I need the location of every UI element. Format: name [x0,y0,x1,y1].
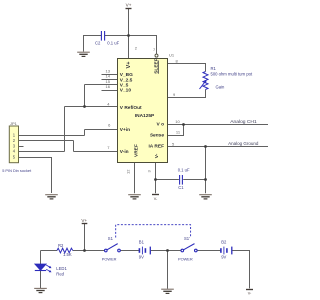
svg-text:POWER: POWER [102,256,117,261]
svg-text:JP1: JP1 [10,121,18,126]
svg-text:V+: V+ [126,61,132,69]
svg-text:V+: V+ [126,3,132,8]
svg-text:V_5: V_5 [120,83,129,89]
svg-text:0.1 uF: 0.1 uF [107,41,119,46]
svg-text:B2: B2 [221,239,227,244]
svg-text:12: 12 [126,169,131,174]
svg-text:U1: U1 [169,53,175,58]
svg-text:Gain: Gain [216,84,226,89]
svg-text:C2: C2 [95,41,101,46]
svg-text:9V: 9V [221,254,226,259]
svg-text:S1': S1' [184,236,190,241]
svg-text:INA125P: INA125P [135,113,155,119]
svg-text:C1: C1 [178,185,184,190]
svg-text:R1: R1 [211,66,217,71]
svg-text:V-: V- [154,153,160,158]
svg-text:Analog CH1: Analog CH1 [230,119,257,125]
svg-text:S1: S1 [108,236,114,241]
svg-text:V Ref/Out: V Ref/Out [120,105,142,111]
svg-text:V+in: V+in [120,127,130,133]
svg-text:V_2.5: V_2.5 [120,77,133,83]
svg-text:V+: V+ [81,218,87,223]
svg-text:V_10: V_10 [120,88,132,94]
svg-text:0.1 uF: 0.1 uF [178,168,190,173]
svg-text:POWER: POWER [178,256,193,261]
svg-text:500 ohm multi turn pot: 500 ohm multi turn pot [211,72,254,77]
svg-text:Red: Red [56,271,64,276]
svg-text:VREF: VREF [133,144,139,157]
svg-text:5 PIN Din socket: 5 PIN Din socket [2,168,32,173]
svg-text:Analog Ground: Analog Ground [228,141,259,146]
svg-text:Sense: Sense [150,132,164,138]
svg-text:9V: 9V [139,254,144,259]
svg-text:R2: R2 [58,243,64,248]
svg-text:1.5K: 1.5K [63,252,72,257]
svg-text:10: 10 [175,119,180,124]
svg-text:IA REF: IA REF [148,144,164,150]
svg-text:V_BG: V_BG [120,72,133,78]
svg-text:16: 16 [106,84,111,89]
svg-text:B1: B1 [139,239,145,244]
svg-text:V o: V o [157,122,165,128]
svg-text:V-in: V-in [120,149,129,155]
